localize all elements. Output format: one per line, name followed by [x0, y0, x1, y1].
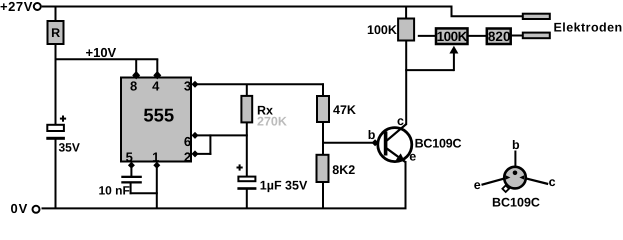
capacitor 35V electrolytic	[46, 116, 80, 155]
pin 3 marker	[192, 81, 199, 88]
svg-text:c: c	[397, 114, 404, 128]
svg-text:BC109C: BC109C	[492, 196, 540, 210]
svg-text:c: c	[549, 175, 556, 189]
wire emitter to 0V rail	[405, 161, 407, 208]
node 0V terminal	[33, 206, 40, 213]
wire drop from +27V rail to 100K	[405, 7, 407, 20]
electrode lower bar	[523, 33, 550, 39]
wire drop to resistor R	[55, 7, 57, 23]
svg-text:+27V: +27V	[0, 0, 33, 14]
wire tie 6 to 2 vertical	[209, 134, 211, 155]
svg-text:820: 820	[488, 29, 511, 44]
pin 5 marker	[128, 162, 135, 169]
svg-text:8K2: 8K2	[332, 163, 355, 177]
potentiometer 100K	[436, 28, 468, 44]
pin 4 marker	[153, 71, 161, 80]
wire collector up	[405, 41, 407, 125]
svg-text:10 nF: 10 nF	[99, 184, 130, 198]
wire 1uF capacitor to 0V rail	[246, 189, 248, 209]
wire top +27V rail	[42, 6, 453, 8]
wire 8K2 to 0V rail	[322, 181, 324, 208]
wire wiper vertical with arrow	[453, 52, 455, 71]
svg-text:b: b	[368, 128, 376, 142]
svg-text:1µF 35V: 1µF 35V	[260, 178, 308, 192]
svg-text:8: 8	[130, 78, 137, 93]
svg-text:e: e	[474, 178, 481, 192]
svg-text:1: 1	[152, 149, 159, 164]
wire drop to pin 8	[135, 59, 137, 76]
resistor Rx	[241, 96, 286, 129]
svg-text:5: 5	[126, 149, 133, 164]
svg-text:6: 6	[184, 134, 191, 149]
resistor 8K2	[317, 155, 356, 182]
wire pot to 820	[468, 35, 488, 37]
svg-text:3: 3	[184, 78, 191, 93]
wire pin 1 to 0V rail	[156, 164, 158, 208]
svg-text:4: 4	[152, 78, 160, 93]
resistor 820	[487, 29, 511, 45]
wire base to transistor	[322, 142, 385, 144]
resistor R	[48, 21, 64, 44]
wire pot left lead	[418, 35, 437, 37]
wire down to 47K	[322, 83, 324, 97]
wire to upper electrode	[451, 15, 524, 17]
wire 0V rail	[42, 207, 407, 209]
resistor 100K vertical	[367, 19, 414, 41]
node +27V terminal	[34, 3, 41, 10]
svg-text:+10V: +10V	[86, 45, 117, 60]
wire 820 to lower electrode	[511, 35, 524, 37]
wire wiper horizontal	[405, 69, 454, 71]
wire pin 6	[193, 134, 248, 136]
wire rail right corner down	[451, 6, 453, 17]
transistor Q1 BC109C symbol	[368, 114, 462, 163]
wire pin 2	[193, 153, 211, 155]
svg-text:555: 555	[143, 104, 174, 125]
svg-text:100K: 100K	[437, 29, 468, 44]
svg-text:47K: 47K	[333, 103, 356, 117]
pin 1 marker	[153, 162, 160, 169]
wire pin 3 output	[193, 83, 324, 85]
pin 8 marker	[132, 71, 140, 80]
wire Rx bottom to 1uF capacitor	[246, 122, 248, 177]
wire +10V rail	[55, 58, 159, 60]
node base pin marker	[372, 139, 379, 146]
wire down to Rx	[246, 84, 248, 97]
wire drop to pin 4	[156, 59, 158, 76]
svg-text:BC109C: BC109C	[415, 136, 462, 150]
capacitor 1uF 35V electrolytic	[237, 164, 308, 192]
svg-text:100K: 100K	[367, 23, 397, 37]
capacitor 10 nF	[99, 164, 158, 198]
pin 2 marker	[192, 150, 199, 157]
svg-text:0V: 0V	[11, 201, 29, 216]
pin 6 marker	[192, 132, 199, 139]
svg-text:270K: 270K	[257, 115, 287, 129]
svg-text:R: R	[51, 26, 60, 40]
svg-text:b: b	[512, 138, 520, 152]
resistor 47K	[317, 96, 356, 122]
svg-text:e: e	[409, 149, 416, 163]
electrode upper bar	[523, 14, 550, 19]
wire R bottom to 35V capacitor	[55, 44, 57, 126]
svg-text:Elektroden: Elektroden	[554, 20, 623, 34]
svg-text:2: 2	[184, 149, 191, 164]
op-amp U1 555 timer IC	[121, 78, 191, 165]
svg-text:35V: 35V	[59, 140, 80, 154]
wire 47K to 8K2	[322, 122, 324, 157]
wire 35V capacitor to 0V rail	[55, 139, 57, 208]
transistor Q1 package view BC109C	[474, 138, 556, 209]
